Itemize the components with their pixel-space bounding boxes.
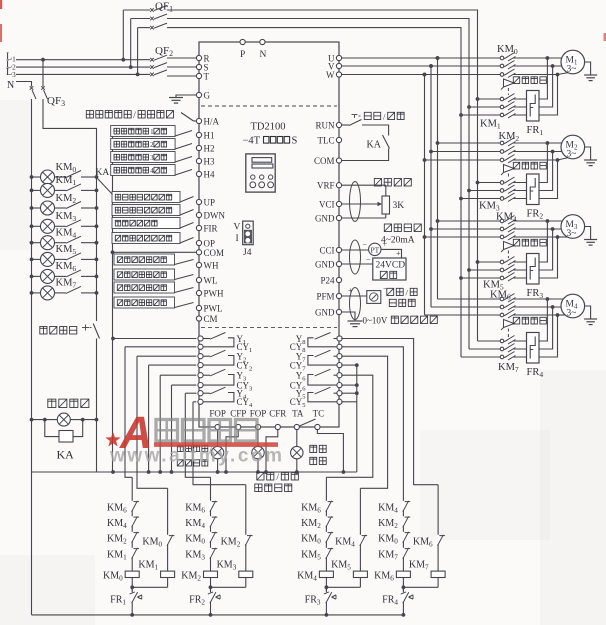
wire CY8 to chain4 feed xyxy=(341,347,403,506)
breaker QF3 xyxy=(41,58,45,62)
terminal FIR xyxy=(196,225,201,230)
relay supply bus xyxy=(32,471,357,473)
interlock contact KM7 xyxy=(402,548,405,557)
svg-text:TD2100: TD2100 xyxy=(251,122,286,133)
input box 进水位下限输入 xyxy=(114,269,175,280)
output terminal CY8 xyxy=(337,344,342,349)
svg-text:24VCD: 24VCD xyxy=(376,261,406,271)
svg-text:PFM: PFM xyxy=(316,291,334,301)
changeover bracket Y2/CY2 xyxy=(203,356,234,366)
svg-text:+: + xyxy=(396,249,401,258)
output terminal Y6 xyxy=(337,373,342,378)
indicator lamp KM1 with aux contact xyxy=(30,189,34,193)
label 变频器超/欠压告警 (under watermark) xyxy=(177,445,213,454)
label 机械联锁 group 4 xyxy=(513,317,546,324)
input box 手动软启动3输入 -> H3 xyxy=(111,152,175,163)
interlock contact KM6 (branch) xyxy=(437,535,440,544)
label 机械联锁 group 3 xyxy=(513,239,546,246)
svg-text:FOP: FOP xyxy=(250,409,267,419)
svg-text:GND: GND xyxy=(315,259,335,269)
left rail down to bottom bus xyxy=(31,420,33,615)
label 压力/频率显示 xyxy=(387,288,417,298)
svg-text:+: + xyxy=(348,286,353,295)
shielded cable ellipse CCI GND xyxy=(350,240,361,274)
wire KM4 pole 3 to motor M3 xyxy=(514,236,558,238)
thermal contact FR1 xyxy=(131,587,133,615)
inverter internal dashed divider lower xyxy=(201,327,337,329)
control bus with KA contacts xyxy=(96,177,98,321)
motor M4 xyxy=(561,294,585,318)
wire QF3 L1-pole to control bus xyxy=(43,99,97,177)
label 机械联锁 group 2 xyxy=(513,162,546,169)
jumper J4 xyxy=(243,221,254,245)
interlock contact KM0 xyxy=(402,532,405,541)
contactor coil KM1 xyxy=(161,571,175,577)
contactor coil KM2 xyxy=(204,571,218,577)
watermark red A logo xyxy=(105,407,152,458)
output terminal Y5 xyxy=(337,391,342,396)
input box 污水位上限输入 xyxy=(114,282,175,293)
watermark red bar xyxy=(154,442,278,447)
svg-text:3~: 3~ xyxy=(567,65,577,75)
svg-text:W: W xyxy=(326,70,335,80)
changeover bracket Y4/CY4 xyxy=(203,393,234,402)
terminal V xyxy=(336,63,341,68)
label 缺水告警 xyxy=(255,484,292,492)
interlock contact KM2 xyxy=(131,532,134,541)
svg-text:J4: J4 xyxy=(243,248,252,258)
svg-text:H3: H3 xyxy=(204,157,215,167)
interlock dashed link group 3 xyxy=(507,251,509,259)
wire V xyxy=(342,65,500,67)
interlock contact KM4 (branch) xyxy=(359,535,362,544)
mechanical interlock symbol group 3 xyxy=(504,242,515,250)
wire junction to KM5 pole 3 xyxy=(514,237,558,278)
wire junction to KM5 pole 1 xyxy=(514,221,548,262)
wire KM6 pole 2 to motor M4 xyxy=(514,306,553,308)
wire TC down to supply bus xyxy=(317,430,343,472)
svg-text:H1: H1 xyxy=(204,131,215,141)
wire KM2 pole 2 to motor M2 xyxy=(514,151,553,153)
interlock contact KM2 xyxy=(402,516,405,525)
wire junction to KM7 pole 1 xyxy=(514,299,548,341)
wire CY4 to chain2 branch feed xyxy=(193,401,196,403)
terminal H1 xyxy=(196,132,201,137)
svg-text:DWN: DWN xyxy=(204,211,226,221)
contactor KM5 pole 3 xyxy=(459,276,463,280)
relay chain column KM2 xyxy=(210,477,212,591)
svg-text:KA: KA xyxy=(367,140,382,151)
contactor KM6 pole 3 xyxy=(425,314,501,316)
interlock contact KM1 xyxy=(131,548,134,557)
svg-text:CM: CM xyxy=(204,314,218,324)
selector switch 选择开关 xyxy=(40,327,77,335)
keypad panel xyxy=(246,154,275,192)
contactor KM6 pole 2 xyxy=(431,306,500,308)
contactor coil KM6 xyxy=(396,571,410,577)
wire L1 xyxy=(16,59,150,61)
svg-text:H/A: H/A xyxy=(204,117,220,127)
interlock contact KM4 xyxy=(402,501,405,510)
wire Y7 to chain3 branch feed xyxy=(341,356,387,488)
wire KM6 pole 3 to motor M4 xyxy=(514,314,558,316)
wire PT to 24VCD supply xyxy=(381,249,402,258)
relay chain column KM4 xyxy=(325,477,327,591)
input box 管网过压信号输入 xyxy=(112,233,180,244)
interlock contact KM6 xyxy=(209,501,212,510)
svg-text:/: / xyxy=(276,472,279,482)
output terminal CY7 xyxy=(337,363,342,368)
svg-text:H2: H2 xyxy=(204,144,215,154)
svg-text:3K: 3K xyxy=(393,201,405,211)
contactor KM5 pole 2 xyxy=(467,268,471,272)
svg-text:www.aitmy.com: www.aitmy.com xyxy=(109,446,282,467)
contactor KM7 pole 3 xyxy=(461,356,500,358)
wire L2 xyxy=(16,66,150,68)
interlock contact KM0 xyxy=(209,532,212,541)
inverter fault lamp 变频故障 xyxy=(291,446,303,458)
branch join xyxy=(211,586,246,588)
wire KM4 pole 2 to motor M3 xyxy=(514,228,553,230)
wire junction to KM7 pole 2 xyxy=(514,307,553,349)
input box 手动软启动4输入 -> H4 xyxy=(111,165,175,176)
label 压力反馈 4~20mA xyxy=(384,224,421,232)
mechanical interlock symbol group 4 xyxy=(504,320,515,328)
terminal PWL xyxy=(196,305,201,310)
svg-text:−: − xyxy=(363,240,368,249)
power supply 24VCD xyxy=(342,263,373,265)
output terminal Y4 xyxy=(198,391,203,396)
terminal G xyxy=(196,92,201,97)
svg-text:−: − xyxy=(366,255,371,264)
svg-text:G: G xyxy=(204,91,211,101)
wire FOP pair 1 xyxy=(217,430,219,447)
input box 频率增加信号输入 xyxy=(112,192,180,203)
interlock contact KM4 xyxy=(209,516,212,525)
contactor KM2 pole 1 xyxy=(436,141,440,145)
wire L3 xyxy=(16,73,150,75)
svg-text:CFP: CFP xyxy=(230,409,246,419)
input box 手动软启动1输入 -> H1 xyxy=(111,126,175,137)
contactor KM1 pole 1 xyxy=(476,97,480,101)
interlock dashed link group 2 xyxy=(507,174,509,179)
breaker QF1 risers from L1 L2 L3 xyxy=(122,10,124,60)
terminal TA xyxy=(294,424,299,429)
relay coil KA xyxy=(43,418,47,422)
label 压力给定 xyxy=(374,179,411,187)
interlock contact KM2 xyxy=(325,516,328,525)
changeover bracket Y5/CY5 xyxy=(308,393,337,402)
motor M4 leads xyxy=(547,298,572,300)
contactor KM2 pole 2 xyxy=(429,150,433,154)
output terminal CY5 xyxy=(337,399,342,404)
input box 消防信号输入 xyxy=(112,218,180,229)
ground at G terminal xyxy=(176,95,196,98)
UVW bus risers xyxy=(436,56,440,60)
indicator lamp KM2 with aux contact xyxy=(30,206,34,210)
selector blade at H/A xyxy=(181,113,194,122)
input box 进水位上限输入 xyxy=(114,254,175,265)
wire junction to KM1 pole 3 xyxy=(514,75,558,116)
scan edge artifacts xyxy=(0,0,2,9)
bottom return bus xyxy=(32,614,405,616)
svg-text:PT: PT xyxy=(371,245,380,254)
svg-text:3~: 3~ xyxy=(567,229,577,239)
output terminal Y3 xyxy=(198,373,203,378)
svg-text:GND: GND xyxy=(315,307,335,317)
branch join xyxy=(132,586,167,588)
contactor KM1 pole 2 xyxy=(467,105,471,109)
interlock contact KM5 xyxy=(325,548,328,557)
wire CY1 to chain1 feed xyxy=(125,346,196,348)
wire KM6 pole 1 to motor M4 xyxy=(514,298,548,300)
motor M1 ground xyxy=(585,62,591,75)
wire junction to KM7 pole 3 xyxy=(514,315,558,357)
wire junction to KM1 pole 1 xyxy=(514,58,548,99)
terminal RUN xyxy=(336,122,341,127)
terminal H3 xyxy=(196,158,201,163)
output terminal Y7 xyxy=(337,354,342,359)
contactor KM3 pole 1 xyxy=(476,181,480,185)
svg-text:KA: KA xyxy=(57,448,75,462)
changeover bracket Y1/CY1 xyxy=(203,338,234,347)
svg-text:WH: WH xyxy=(204,261,219,271)
wire CY3 common xyxy=(172,384,197,386)
svg-text:FOP: FOP xyxy=(209,409,226,419)
terminal UP xyxy=(196,199,201,204)
changeover bracket Y3/CY3 xyxy=(203,375,234,386)
terminal PFM xyxy=(336,293,341,298)
terminal FOP xyxy=(255,424,260,429)
svg-text:UP: UP xyxy=(204,198,216,208)
alarm lamp 1 xyxy=(211,446,223,458)
wire junction to KM3 pole 2 xyxy=(514,152,553,191)
terminal DWN xyxy=(196,212,201,217)
terminal GND xyxy=(336,261,341,266)
thermal overload FR3 xyxy=(527,254,540,285)
terminal P24 xyxy=(336,277,341,282)
contactor KM3 pole 2 xyxy=(467,189,471,193)
output terminal CY4 xyxy=(198,399,203,404)
contactor KM5 pole 1 xyxy=(476,260,480,264)
svg-text:TC: TC xyxy=(313,409,325,419)
wire Y5 to right common xyxy=(341,392,357,394)
mechanical interlock symbol group 2 xyxy=(504,165,515,173)
interlock contact KM6 xyxy=(325,501,328,510)
svg-text:TLC: TLC xyxy=(318,135,335,145)
output terminal CY3 xyxy=(198,383,203,388)
relay chain column KM6 xyxy=(402,506,404,591)
wire W xyxy=(342,74,500,76)
wire Y8 to chain4 branch feed xyxy=(341,339,438,485)
wire Y4 to chain2 feed xyxy=(185,392,196,394)
output terminal CY6 xyxy=(337,383,342,388)
alarm lamp 2 xyxy=(252,446,264,458)
contactor coil KM3 xyxy=(239,571,253,577)
interlock contact KM0 (branch) xyxy=(166,535,169,544)
potentiometer 3K xyxy=(342,184,386,186)
indicator lamp KM3 with aux contact xyxy=(30,224,34,228)
inverter internal dashed divider upper xyxy=(201,105,337,107)
contactor KM4 pole 3 xyxy=(423,235,427,239)
contactor KM1 pole 3 xyxy=(459,113,463,117)
terminal R xyxy=(196,55,201,60)
terminal H/A xyxy=(196,118,201,123)
contactor KM7 pole 2 xyxy=(469,348,500,350)
motor M2 ground xyxy=(585,147,591,160)
right common riser down to supply bus xyxy=(356,365,358,472)
label 机械联锁 group 1 xyxy=(513,77,546,84)
interlock contact KM0 xyxy=(325,532,328,541)
svg-text:P24: P24 xyxy=(320,275,335,285)
breaker QF2 xyxy=(150,58,154,62)
terminal N xyxy=(260,39,265,44)
indicator lamp KM6 with aux contact xyxy=(30,275,34,279)
svg-text:+: + xyxy=(383,240,388,249)
motor M1 xyxy=(561,50,585,74)
contactor KM6 pole 1 xyxy=(438,298,501,300)
terminal CM xyxy=(196,316,201,321)
svg-text:RUN: RUN xyxy=(315,120,335,130)
svg-text:VRF: VRF xyxy=(317,181,335,191)
commons vertical joining input boxes xyxy=(112,130,114,472)
wire N xyxy=(16,82,32,87)
wire KM0 pole 2 to motor M1 xyxy=(514,65,553,67)
svg-text:T: T xyxy=(204,72,210,82)
wire Y3 common xyxy=(160,374,196,376)
svg-text:PWL: PWL xyxy=(204,304,223,314)
wire U xyxy=(342,57,500,59)
contactor KM2 pole 3 xyxy=(423,158,427,162)
changeover bracket Y8/CY8 xyxy=(308,338,337,347)
svg-text:VCI: VCI xyxy=(319,199,335,209)
svg-text:CFR: CFR xyxy=(269,409,286,419)
wire CY2 common xyxy=(149,364,197,366)
svg-text:PWH: PWH xyxy=(204,289,225,299)
branch join xyxy=(326,586,360,588)
branch join xyxy=(403,586,438,588)
svg-text:S: S xyxy=(292,136,298,147)
shielded cable ellipse PFM GND xyxy=(350,288,361,320)
interlock contact KM4 xyxy=(131,516,134,525)
breaker QF1 xyxy=(150,8,154,12)
indicator lamp KM4 with aux contact xyxy=(30,241,34,245)
wire QF2 to R S T xyxy=(167,57,196,59)
motor M2 leads xyxy=(547,142,572,144)
input box 污水位下限输入 xyxy=(114,297,175,308)
svg-text:WL: WL xyxy=(204,276,218,286)
output terminal Y8 xyxy=(337,336,342,341)
terminal OP xyxy=(196,240,201,245)
indicator lamp KM0 with aux contact xyxy=(30,175,34,179)
wire CY7 to right common xyxy=(341,364,357,366)
terminal U xyxy=(336,55,341,60)
branch column KM7 xyxy=(437,485,439,588)
wire KM0 pole 1 to motor M1 xyxy=(514,57,548,59)
thermal contact FR3 xyxy=(325,587,327,615)
terminal WL xyxy=(196,277,201,282)
thermal contact FR4 xyxy=(402,587,404,615)
interlock dashed link group 4 xyxy=(507,329,509,338)
svg-text:TA: TA xyxy=(292,409,304,419)
wire control permit row xyxy=(32,419,58,421)
lamp control permit xyxy=(57,413,70,426)
blade TA-TC xyxy=(300,419,316,426)
watermark brand characters xyxy=(156,420,257,442)
pressure transmitter PT xyxy=(342,249,369,251)
terminal CCI xyxy=(336,247,341,252)
output terminal CY2 xyxy=(198,363,203,368)
contactor coil KM5 xyxy=(353,571,367,577)
wire Y2 to chain1 branch feed xyxy=(137,355,196,357)
output terminal Y2 xyxy=(198,354,203,359)
branch column KM3 xyxy=(245,485,247,588)
wire QF1 phase C to right bus xyxy=(167,28,461,357)
relay chain column KM0 xyxy=(131,477,133,591)
wire junction to KM5 pole 2 xyxy=(514,229,553,270)
terminal GND xyxy=(336,215,341,220)
contactor KM0 pole 2 xyxy=(429,64,433,68)
svg-text:3~: 3~ xyxy=(567,309,577,319)
contactor KM0 pole 3 xyxy=(423,73,427,77)
input box 手动软启动2输入 -> H2 xyxy=(111,139,175,150)
wire QF1 phase A to right bus xyxy=(167,10,478,341)
terminal P xyxy=(240,39,245,44)
wire CY6 to right common xyxy=(341,384,357,386)
thermal overload FR4 xyxy=(527,333,540,364)
svg-text:CCI: CCI xyxy=(319,245,334,255)
svg-text:GND: GND xyxy=(315,213,335,223)
contactor KM4 pole 2 xyxy=(429,227,433,231)
changeover bracket Y6/CY6 xyxy=(308,375,337,386)
terminal FOP xyxy=(215,424,220,429)
wire COM to commons vertical xyxy=(113,251,197,253)
output terminal CY1 xyxy=(198,344,203,349)
wire GND to voltmeter ground xyxy=(342,312,355,321)
wire Y1 to bus riser xyxy=(113,338,196,340)
left lamp bus xyxy=(31,177,33,420)
branch column KM5 xyxy=(359,488,361,587)
svg-text:COM: COM xyxy=(314,156,335,166)
wire junction to KM3 pole 1 xyxy=(514,143,548,183)
contactor KM0 pole 1 xyxy=(436,56,440,60)
svg-text:COM: COM xyxy=(204,248,225,258)
wire TA xyxy=(296,430,298,447)
motor M2 xyxy=(561,135,585,159)
wire KM2 pole 1 to motor M2 xyxy=(514,142,548,144)
motor M3 xyxy=(561,215,585,239)
wire KM2 pole 3 to motor M2 xyxy=(514,159,558,161)
terminal H4 xyxy=(196,171,201,176)
contactor KM7 pole 1 xyxy=(478,340,501,342)
motor M4 ground xyxy=(585,306,591,319)
wire Y6 to chain3 feed xyxy=(326,375,372,477)
terminal WH xyxy=(196,262,201,267)
svg-text:H4: H4 xyxy=(204,170,215,180)
svg-text:V: V xyxy=(234,223,241,233)
svg-text:I: I xyxy=(236,234,239,244)
svg-text:−4T: −4T xyxy=(243,136,261,147)
terminal VCI xyxy=(336,201,341,206)
terminal PWH xyxy=(196,290,201,295)
svg-text:3~: 3~ xyxy=(567,150,577,160)
svg-text:FIR: FIR xyxy=(204,224,218,234)
terminal W xyxy=(336,72,341,77)
indicator lamp KM7 with aux contact xyxy=(30,291,34,295)
wire junction to KM1 pole 2 xyxy=(514,66,553,107)
svg-text:P: P xyxy=(240,50,245,60)
thermal contact FR2 xyxy=(210,587,212,615)
